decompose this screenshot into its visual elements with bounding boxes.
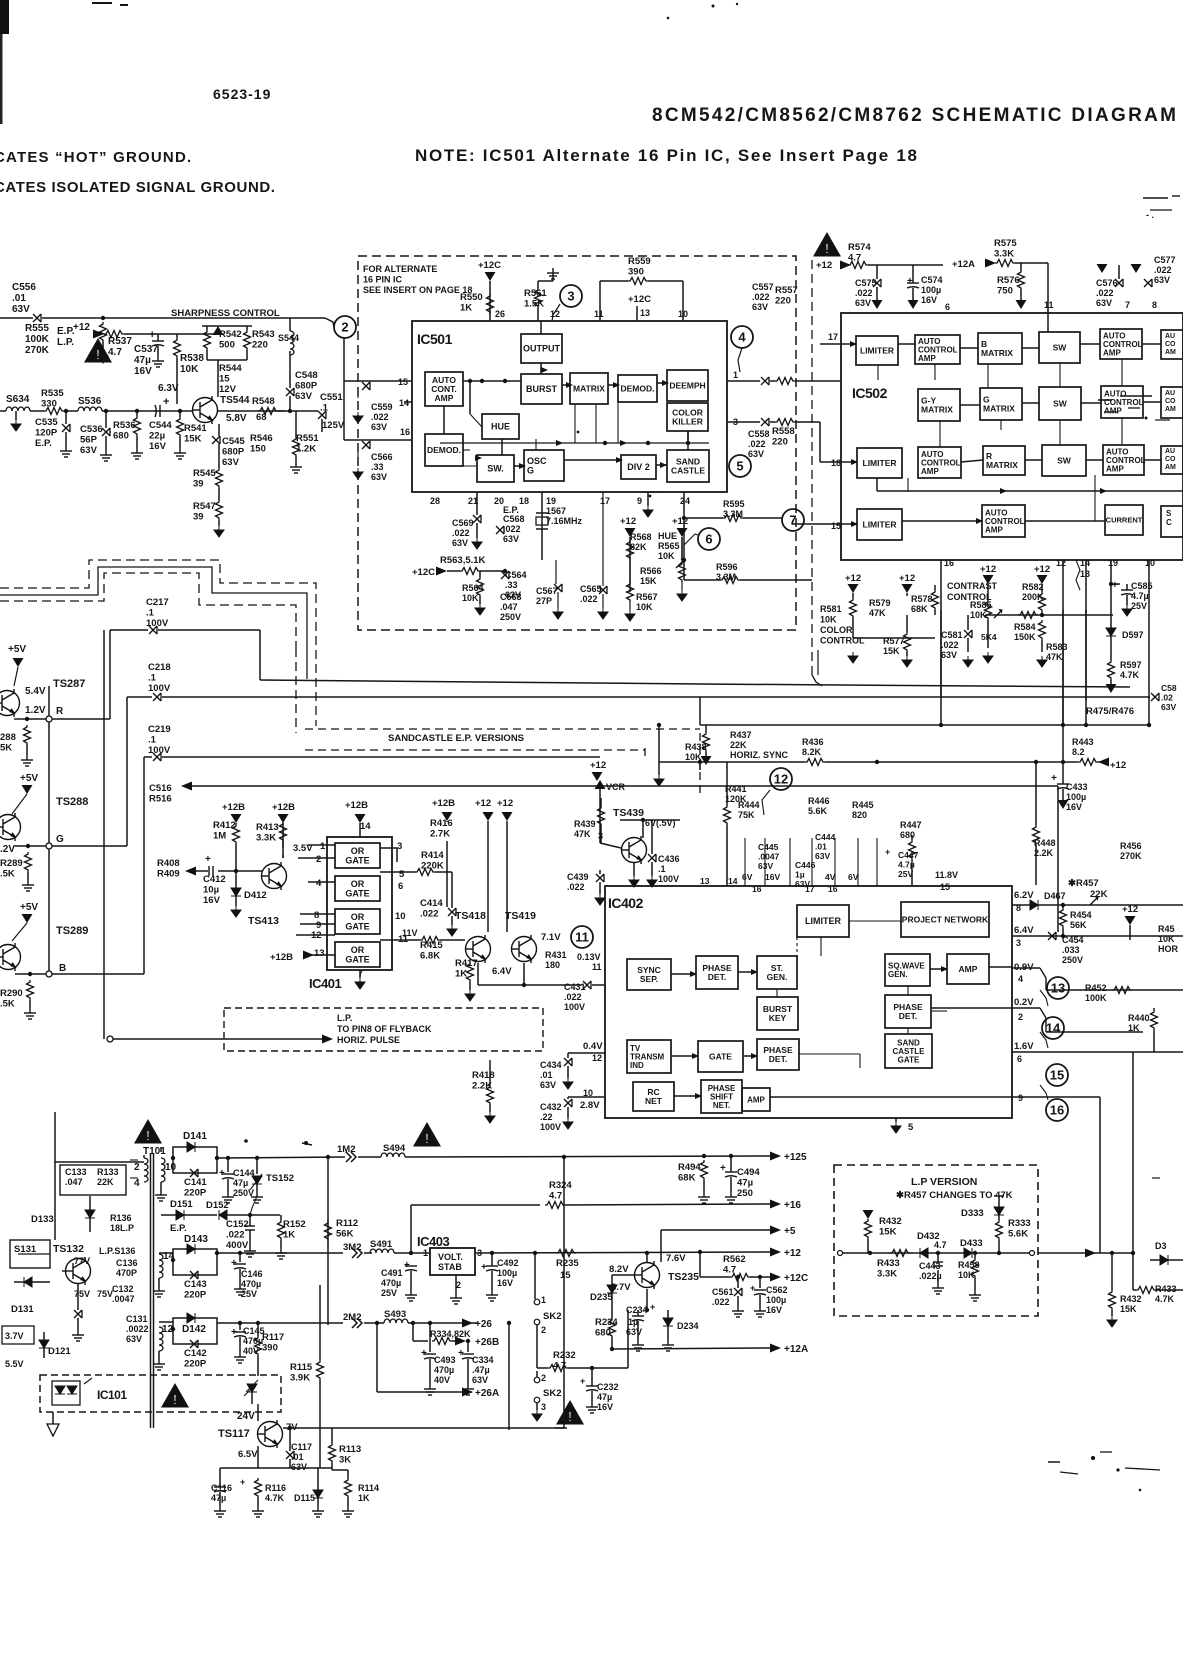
svg-text:TS132: TS132 bbox=[53, 1243, 84, 1255]
svg-text:+12: +12 bbox=[980, 564, 996, 575]
svg-text:18L.P: 18L.P bbox=[110, 1223, 134, 1233]
svg-text:390: 390 bbox=[262, 1343, 278, 1354]
svg-text:MATRIX: MATRIX bbox=[921, 404, 953, 414]
svg-text:63V: 63V bbox=[291, 1462, 307, 1472]
svg-text:.0022: .0022 bbox=[126, 1324, 149, 1334]
svg-text:10: 10 bbox=[1145, 558, 1155, 568]
svg-text:R581: R581 bbox=[820, 604, 842, 614]
svg-text:100V: 100V bbox=[146, 618, 169, 629]
svg-text:C556: C556 bbox=[12, 282, 36, 293]
svg-text:400V: 400V bbox=[226, 1240, 249, 1251]
svg-text:TS287: TS287 bbox=[53, 678, 85, 690]
svg-text:10: 10 bbox=[678, 309, 688, 319]
svg-text:.047: .047 bbox=[65, 1177, 83, 1187]
svg-text:220: 220 bbox=[252, 340, 268, 351]
svg-text:+: + bbox=[219, 1168, 225, 1179]
svg-text:63V: 63V bbox=[80, 445, 98, 456]
svg-text:63V: 63V bbox=[452, 538, 468, 548]
svg-text:16: 16 bbox=[944, 558, 954, 568]
svg-text:C559: C559 bbox=[371, 402, 393, 412]
svg-text:C561: C561 bbox=[712, 1287, 734, 1297]
svg-text:22K: 22K bbox=[1090, 889, 1108, 900]
svg-text:+12: +12 bbox=[816, 260, 832, 271]
svg-text:3M2: 3M2 bbox=[343, 1242, 361, 1253]
svg-text:IC403: IC403 bbox=[417, 1234, 449, 1249]
svg-text:21: 21 bbox=[468, 496, 478, 506]
svg-text:680: 680 bbox=[113, 431, 129, 442]
svg-text:100V: 100V bbox=[148, 745, 171, 756]
svg-text:24: 24 bbox=[680, 496, 690, 506]
svg-text:1K: 1K bbox=[358, 1493, 370, 1503]
svg-text:63V: 63V bbox=[371, 422, 387, 432]
svg-text:10: 10 bbox=[165, 1162, 177, 1173]
svg-text:R546: R546 bbox=[250, 433, 273, 444]
svg-text:25V: 25V bbox=[1131, 601, 1147, 611]
svg-text:R565: R565 bbox=[658, 541, 680, 551]
svg-text:+: + bbox=[1112, 580, 1118, 591]
svg-text:14: 14 bbox=[728, 876, 738, 886]
svg-text:.01: .01 bbox=[291, 1452, 304, 1462]
svg-text:+: + bbox=[421, 1348, 427, 1359]
svg-text:IC101: IC101 bbox=[97, 1388, 127, 1402]
svg-text:S634: S634 bbox=[6, 394, 30, 405]
svg-text:470µ: 470µ bbox=[243, 1336, 263, 1346]
svg-text:DET.: DET. bbox=[769, 1054, 787, 1064]
svg-text:AU: AU bbox=[1165, 448, 1175, 455]
svg-text:5K4: 5K4 bbox=[981, 632, 997, 642]
svg-text:5K: 5K bbox=[0, 743, 12, 754]
svg-text:4.7: 4.7 bbox=[108, 347, 122, 358]
svg-text:39: 39 bbox=[193, 512, 204, 523]
svg-text:R562: R562 bbox=[723, 1254, 746, 1265]
svg-text:+12: +12 bbox=[899, 573, 915, 584]
svg-text:820: 820 bbox=[852, 810, 867, 820]
svg-text:C569: C569 bbox=[452, 518, 474, 528]
svg-text:C536: C536 bbox=[80, 424, 103, 435]
svg-text:4.7: 4.7 bbox=[934, 1240, 947, 1250]
svg-text:SW: SW bbox=[1053, 398, 1068, 408]
svg-text:270K: 270K bbox=[1120, 851, 1142, 861]
svg-text:GATE: GATE bbox=[345, 921, 369, 931]
svg-text:R136: R136 bbox=[110, 1213, 132, 1223]
svg-text:MATRIX: MATRIX bbox=[983, 403, 1015, 413]
svg-text:220K: 220K bbox=[421, 861, 444, 872]
svg-text:R415: R415 bbox=[420, 940, 443, 951]
svg-text:16: 16 bbox=[828, 884, 838, 894]
svg-text:D142: D142 bbox=[182, 1324, 206, 1335]
svg-text:COLOR: COLOR bbox=[820, 625, 853, 635]
svg-text:3.9K: 3.9K bbox=[290, 1373, 310, 1384]
svg-text:.022: .022 bbox=[503, 524, 521, 534]
svg-text:MATRIX: MATRIX bbox=[573, 383, 605, 393]
svg-text:47µ: 47µ bbox=[233, 1178, 248, 1188]
svg-text:HUE: HUE bbox=[491, 422, 510, 432]
svg-text:GATE: GATE bbox=[709, 1051, 732, 1061]
svg-text:D131: D131 bbox=[11, 1304, 34, 1315]
svg-text:R542: R542 bbox=[219, 329, 242, 340]
svg-text:6: 6 bbox=[1017, 1054, 1022, 1064]
svg-text:C: C bbox=[1166, 518, 1172, 527]
svg-text:.33: .33 bbox=[505, 580, 518, 590]
svg-text:R234: R234 bbox=[595, 1317, 618, 1328]
svg-text:C558: C558 bbox=[748, 429, 770, 439]
svg-text:C218: C218 bbox=[148, 662, 171, 673]
svg-text:22K: 22K bbox=[730, 740, 747, 750]
svg-text:24V: 24V bbox=[237, 1411, 255, 1422]
svg-text:TS418: TS418 bbox=[455, 910, 486, 922]
svg-text:AMP: AMP bbox=[985, 525, 1003, 534]
svg-text:0.13V: 0.13V bbox=[577, 952, 601, 962]
svg-text:C431: C431 bbox=[564, 982, 586, 992]
svg-text:470P: 470P bbox=[116, 1268, 137, 1278]
svg-text:✱R457 CHANGES TO 47K: ✱R457 CHANGES TO 47K bbox=[896, 1190, 1013, 1201]
svg-text:+12: +12 bbox=[497, 798, 513, 809]
svg-text:C436: C436 bbox=[658, 854, 680, 864]
svg-text:3: 3 bbox=[733, 417, 738, 427]
svg-text:R334,82K: R334,82K bbox=[430, 1329, 471, 1339]
svg-text:68K: 68K bbox=[678, 1173, 696, 1184]
svg-text:6.4V: 6.4V bbox=[1014, 925, 1034, 936]
svg-text:.1: .1 bbox=[146, 608, 155, 619]
svg-text:AMP: AMP bbox=[959, 964, 978, 974]
svg-text:3.3K: 3.3K bbox=[256, 833, 276, 844]
svg-text:CO: CO bbox=[1165, 341, 1176, 348]
svg-text:G: G bbox=[56, 834, 64, 845]
svg-text:+12: +12 bbox=[672, 516, 688, 527]
svg-text:SEE INSERT ON PAGE 18: SEE INSERT ON PAGE 18 bbox=[363, 285, 472, 295]
svg-text:GEN.: GEN. bbox=[888, 970, 908, 979]
svg-text:TS439: TS439 bbox=[613, 807, 644, 819]
svg-text:15K: 15K bbox=[883, 646, 900, 656]
svg-text:R582: R582 bbox=[1022, 582, 1044, 592]
svg-text:5.5V: 5.5V bbox=[5, 1359, 24, 1369]
svg-text:R516: R516 bbox=[149, 794, 172, 805]
svg-text:+26B: +26B bbox=[475, 1337, 499, 1348]
svg-text:15: 15 bbox=[219, 374, 230, 385]
svg-text:LIMITER: LIMITER bbox=[860, 345, 894, 355]
svg-text:TS419: TS419 bbox=[505, 910, 536, 922]
svg-text:6V: 6V bbox=[848, 872, 859, 882]
svg-text:27P: 27P bbox=[536, 596, 552, 606]
svg-text:220P: 220P bbox=[184, 1290, 207, 1301]
svg-text:C574: C574 bbox=[921, 275, 943, 285]
svg-text:R436: R436 bbox=[802, 737, 824, 747]
svg-text:S: S bbox=[1166, 509, 1172, 518]
svg-text:63V: 63V bbox=[815, 851, 830, 861]
svg-text:R433: R433 bbox=[877, 1258, 900, 1269]
svg-text:63V: 63V bbox=[126, 1334, 142, 1344]
svg-text:10K: 10K bbox=[970, 610, 987, 620]
svg-text:C144: C144 bbox=[233, 1168, 255, 1178]
svg-text:L.P VERSION: L.P VERSION bbox=[911, 1176, 977, 1188]
svg-text:220P: 220P bbox=[184, 1188, 207, 1199]
svg-text:R563,5.1K: R563,5.1K bbox=[440, 555, 486, 566]
svg-text:C567: C567 bbox=[536, 586, 558, 596]
svg-text:+16: +16 bbox=[784, 1200, 801, 1211]
svg-text:C434: C434 bbox=[540, 1060, 562, 1070]
svg-text:+: + bbox=[907, 276, 913, 287]
svg-text:R289: R289 bbox=[0, 858, 23, 869]
svg-text:R583: R583 bbox=[1046, 642, 1068, 652]
svg-text:13: 13 bbox=[640, 308, 650, 318]
svg-text:.022: .022 bbox=[748, 439, 766, 449]
svg-text:+12A: +12A bbox=[784, 1344, 808, 1355]
svg-text:SW.: SW. bbox=[487, 464, 504, 474]
svg-text:12: 12 bbox=[1056, 558, 1066, 568]
svg-text:R550: R550 bbox=[460, 292, 483, 303]
svg-text:C116: C116 bbox=[211, 1483, 232, 1493]
svg-text:NET: NET bbox=[645, 1096, 663, 1106]
svg-text:4.7K: 4.7K bbox=[1155, 1294, 1175, 1304]
svg-text:R547: R547 bbox=[193, 501, 216, 512]
svg-text:4.7µ: 4.7µ bbox=[898, 860, 915, 870]
svg-text:D235: D235 bbox=[590, 1292, 613, 1303]
svg-text:1.5K: 1.5K bbox=[524, 299, 544, 310]
svg-text:C444: C444 bbox=[815, 832, 836, 842]
svg-text:AU: AU bbox=[1165, 390, 1175, 397]
svg-text:R579: R579 bbox=[869, 598, 891, 608]
svg-text:63V: 63V bbox=[503, 534, 519, 544]
svg-text:82K: 82K bbox=[630, 542, 647, 552]
svg-text:R409: R409 bbox=[157, 869, 180, 880]
svg-text:2.2K: 2.2K bbox=[472, 1081, 492, 1092]
svg-text:DIV 2: DIV 2 bbox=[627, 462, 650, 472]
svg-text:D467: D467 bbox=[1044, 891, 1066, 901]
svg-text:1: 1 bbox=[541, 1295, 546, 1305]
svg-text:R333: R333 bbox=[1008, 1218, 1031, 1229]
svg-text:40V: 40V bbox=[243, 1346, 259, 1356]
svg-text:R545: R545 bbox=[193, 468, 216, 479]
svg-text:C143: C143 bbox=[184, 1279, 207, 1290]
svg-text:11: 11 bbox=[592, 962, 602, 972]
svg-text:.01: .01 bbox=[815, 842, 827, 852]
svg-text:7: 7 bbox=[1125, 300, 1130, 310]
svg-text:16: 16 bbox=[400, 427, 410, 437]
svg-text:14: 14 bbox=[163, 1251, 175, 1262]
svg-text:15K: 15K bbox=[1120, 1304, 1137, 1314]
svg-text:270K: 270K bbox=[25, 345, 50, 356]
svg-text:4: 4 bbox=[316, 878, 322, 889]
svg-text:GEN.: GEN. bbox=[767, 972, 788, 982]
svg-text:63V: 63V bbox=[222, 457, 240, 468]
svg-text:IC401: IC401 bbox=[309, 976, 341, 991]
svg-text:6.5V: 6.5V bbox=[238, 1449, 258, 1460]
svg-text:+: + bbox=[650, 1302, 655, 1312]
svg-text:C562: C562 bbox=[766, 1285, 788, 1295]
svg-text:15K: 15K bbox=[184, 434, 202, 445]
svg-text:63V: 63V bbox=[752, 302, 768, 312]
svg-text:OR: OR bbox=[351, 846, 365, 856]
svg-text:+: + bbox=[205, 854, 211, 865]
svg-text:10K: 10K bbox=[820, 615, 837, 625]
svg-text:SEP.: SEP. bbox=[640, 974, 658, 984]
svg-text:+: + bbox=[240, 1477, 245, 1487]
svg-text:VCR: VCR bbox=[606, 782, 626, 792]
svg-text:SW: SW bbox=[1057, 455, 1072, 465]
svg-text:C433: C433 bbox=[1066, 782, 1088, 792]
svg-text:6V: 6V bbox=[742, 872, 753, 882]
svg-text:+12: +12 bbox=[1122, 904, 1138, 915]
svg-text:16V: 16V bbox=[765, 872, 780, 882]
svg-text:R535: R535 bbox=[41, 388, 64, 399]
svg-text:.01: .01 bbox=[540, 1070, 553, 1080]
svg-text:S536: S536 bbox=[78, 396, 102, 407]
svg-text:.022µ: .022µ bbox=[919, 1271, 942, 1281]
svg-text:C575: C575 bbox=[855, 278, 877, 288]
svg-text:R567: R567 bbox=[636, 592, 658, 602]
svg-text:17: 17 bbox=[828, 332, 838, 342]
svg-text:R117: R117 bbox=[262, 1332, 284, 1343]
svg-text:470µ: 470µ bbox=[434, 1365, 454, 1375]
svg-text:C219: C219 bbox=[148, 724, 171, 735]
svg-text:16V: 16V bbox=[149, 441, 167, 452]
svg-text:R584: R584 bbox=[1014, 622, 1036, 632]
svg-text:12V: 12V bbox=[219, 384, 237, 395]
svg-text:2: 2 bbox=[134, 1162, 140, 1173]
svg-text:6V(.5V): 6V(.5V) bbox=[645, 818, 676, 828]
svg-text:DET.: DET. bbox=[899, 1011, 917, 1021]
svg-text:CASTLE: CASTLE bbox=[671, 465, 705, 475]
svg-text:R555: R555 bbox=[25, 323, 49, 334]
svg-text:R551: R551 bbox=[296, 433, 319, 444]
svg-text:.022: .022 bbox=[580, 594, 598, 604]
svg-text:8.7V: 8.7V bbox=[611, 1282, 631, 1293]
svg-text:R439: R439 bbox=[574, 819, 596, 829]
svg-text:2.2K: 2.2K bbox=[1034, 848, 1054, 858]
svg-text:C447: C447 bbox=[898, 850, 919, 860]
svg-text:.033: .033 bbox=[1062, 945, 1080, 955]
svg-text:E.P.: E.P. bbox=[35, 438, 52, 449]
svg-text:AM: AM bbox=[1165, 349, 1176, 356]
svg-text:R444: R444 bbox=[738, 800, 760, 810]
svg-text:63V: 63V bbox=[12, 304, 30, 315]
svg-text:KILLER: KILLER bbox=[672, 416, 703, 426]
svg-text:R578: R578 bbox=[911, 594, 933, 604]
svg-text:S493: S493 bbox=[384, 1309, 406, 1320]
svg-text:22K: 22K bbox=[97, 1177, 114, 1187]
svg-text:3.3K: 3.3K bbox=[877, 1269, 897, 1280]
svg-text:R232: R232 bbox=[553, 1350, 576, 1361]
svg-text:100K: 100K bbox=[25, 334, 50, 345]
svg-text:250: 250 bbox=[737, 1188, 753, 1199]
svg-text:.022: .022 bbox=[371, 412, 389, 422]
svg-text:15: 15 bbox=[831, 521, 841, 531]
svg-text:+: + bbox=[1051, 773, 1057, 784]
svg-text:+: + bbox=[720, 1163, 726, 1174]
svg-text:100V: 100V bbox=[540, 1122, 561, 1132]
svg-text:100µ: 100µ bbox=[766, 1295, 786, 1305]
svg-text:47K: 47K bbox=[1046, 652, 1063, 662]
svg-text:+12B: +12B bbox=[345, 800, 368, 811]
svg-text:14: 14 bbox=[1046, 1021, 1061, 1036]
svg-text:11: 11 bbox=[1044, 300, 1054, 310]
svg-text:63V: 63V bbox=[472, 1375, 488, 1385]
svg-text:C232: C232 bbox=[597, 1382, 619, 1392]
svg-text:+12C: +12C bbox=[628, 294, 651, 305]
svg-text:AU: AU bbox=[1165, 333, 1175, 340]
svg-text:S544: S544 bbox=[278, 333, 299, 343]
svg-text:AMP: AMP bbox=[1103, 348, 1121, 357]
svg-text:+5V: +5V bbox=[20, 773, 38, 784]
svg-text:+12C: +12C bbox=[412, 567, 435, 578]
svg-text:VOLT.: VOLT. bbox=[438, 1252, 463, 1262]
svg-text:15K: 15K bbox=[640, 576, 657, 586]
svg-text:GATE: GATE bbox=[898, 1055, 920, 1064]
svg-text:500: 500 bbox=[219, 340, 235, 351]
svg-text:T101: T101 bbox=[143, 1146, 166, 1157]
svg-text:R408: R408 bbox=[157, 858, 180, 869]
svg-text:4.7µ: 4.7µ bbox=[1131, 591, 1149, 601]
svg-text:17: 17 bbox=[600, 496, 610, 506]
svg-text:OR: OR bbox=[351, 945, 365, 955]
svg-text:R475/R476: R475/R476 bbox=[1086, 706, 1134, 717]
svg-text:750: 750 bbox=[997, 286, 1013, 297]
svg-text:4.7: 4.7 bbox=[549, 1191, 562, 1202]
svg-text:.5K: .5K bbox=[0, 869, 15, 880]
svg-text:R438: R438 bbox=[685, 742, 707, 752]
svg-text:6.3V: 6.3V bbox=[158, 383, 179, 394]
svg-text:OR: OR bbox=[351, 879, 365, 889]
svg-text:8CM542/CM8562/CM8762 SCHEMATIC: 8CM542/CM8562/CM8762 SCHEMATIC DIAGRAM bbox=[652, 105, 1178, 126]
svg-text:C432: C432 bbox=[540, 1102, 562, 1112]
svg-text:FOR ALTERNATE: FOR ALTERNATE bbox=[363, 264, 437, 274]
svg-text:AMP: AMP bbox=[747, 1095, 765, 1104]
svg-text:R566: R566 bbox=[640, 566, 662, 576]
svg-text:0.2V: 0.2V bbox=[1014, 997, 1034, 1008]
svg-text:288: 288 bbox=[0, 732, 16, 743]
svg-text:R431: R431 bbox=[545, 950, 567, 960]
svg-text:C581: C581 bbox=[941, 630, 963, 640]
svg-text:680P: 680P bbox=[295, 381, 318, 392]
svg-text:C217: C217 bbox=[146, 597, 169, 608]
svg-text:.22: .22 bbox=[540, 1112, 553, 1122]
svg-text:22µ: 22µ bbox=[149, 431, 165, 442]
svg-text:10K: 10K bbox=[658, 551, 675, 561]
svg-text:C439: C439 bbox=[567, 872, 589, 882]
svg-text:63V: 63V bbox=[855, 298, 871, 308]
svg-text:7V: 7V bbox=[286, 1422, 298, 1433]
svg-text:8.2V: 8.2V bbox=[609, 1264, 629, 1275]
svg-text:C412: C412 bbox=[203, 874, 226, 885]
svg-text:DEMOD.: DEMOD. bbox=[621, 383, 655, 393]
svg-text:.0047: .0047 bbox=[112, 1294, 135, 1304]
svg-text:CURRENT: CURRENT bbox=[1106, 516, 1143, 525]
svg-text:C454: C454 bbox=[1062, 935, 1084, 945]
svg-text:100K: 100K bbox=[1085, 993, 1107, 1003]
svg-text:12: 12 bbox=[774, 772, 788, 787]
svg-text:+: + bbox=[750, 1283, 755, 1293]
svg-text:3: 3 bbox=[541, 1402, 546, 1412]
svg-text:R133: R133 bbox=[97, 1167, 119, 1177]
svg-text:C132: C132 bbox=[112, 1284, 134, 1294]
svg-text:10K: 10K bbox=[462, 593, 479, 603]
svg-text:R116: R116 bbox=[265, 1483, 286, 1493]
svg-text:+: + bbox=[580, 1376, 585, 1386]
svg-text:150K: 150K bbox=[1014, 632, 1036, 642]
svg-text:6.2V: 6.2V bbox=[1014, 890, 1034, 901]
svg-text:R45: R45 bbox=[1158, 924, 1175, 934]
svg-text:R574: R574 bbox=[848, 242, 871, 253]
svg-text:R235: R235 bbox=[556, 1258, 579, 1269]
svg-text:7.6V: 7.6V bbox=[666, 1253, 686, 1264]
svg-text:C446: C446 bbox=[795, 860, 816, 870]
svg-text:12: 12 bbox=[162, 1324, 174, 1335]
svg-text:68K: 68K bbox=[911, 604, 928, 614]
svg-text:.022: .022 bbox=[712, 1297, 730, 1307]
svg-text:C585: C585 bbox=[1131, 581, 1153, 591]
svg-text:3: 3 bbox=[598, 831, 603, 841]
svg-text:SK2: SK2 bbox=[543, 1311, 561, 1322]
